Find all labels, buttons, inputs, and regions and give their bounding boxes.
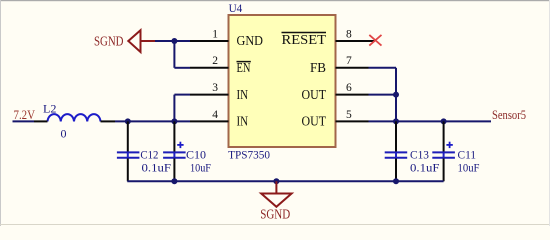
svg-text:GND: GND: [237, 34, 264, 49]
svg-text:6: 6: [346, 82, 352, 94]
svg-text:OUT: OUT: [302, 88, 327, 103]
svg-text:7.2V: 7.2V: [14, 108, 36, 122]
svg-text:RESET: RESET: [282, 33, 327, 48]
pin 5 OUT: [302, 109, 369, 130]
junction SGND/ground rail: [273, 178, 279, 184]
svg-text:1: 1: [212, 28, 218, 40]
pin 6 OUT: [302, 82, 369, 103]
svg-text:IN: IN: [237, 88, 249, 103]
capacitor C13: [385, 121, 440, 181]
svg-text:0.1uF: 0.1uF: [142, 161, 172, 175]
svg-text:L2: L2: [43, 102, 57, 116]
junction C13/ground rail: [393, 178, 399, 184]
no-ERC marker X: [369, 35, 381, 46]
svg-text:IN: IN: [237, 115, 249, 130]
inductor L2: [48, 114, 101, 121]
wire: pin3 vertical tap: [173, 95, 175, 122]
svg-text:0.1uF: 0.1uF: [410, 161, 440, 175]
junction at C10 / pin3 tap: [171, 118, 177, 124]
svg-text:3: 3: [212, 82, 218, 94]
pin 8 RESET (no connect): [282, 28, 376, 48]
wire: down to pin2: [173, 41, 175, 68]
svg-text:C10: C10: [186, 147, 206, 161]
svg-text:8: 8: [346, 28, 352, 40]
svg-text:U4: U4: [229, 1, 243, 15]
op IC U4 TPS7350 body: [229, 15, 336, 147]
wire: FB tie to OUT rail: [369, 67, 397, 69]
junction at C12 tap: [125, 118, 131, 124]
svg-text:OUT: OUT: [302, 115, 327, 130]
pin 4 IN: [190, 109, 248, 130]
svg-text:5: 5: [346, 109, 352, 121]
svg-text:10uF: 10uF: [190, 161, 211, 175]
svg-text:Sensor5: Sensor5: [492, 108, 526, 122]
wire: pin6 to rail: [369, 94, 397, 96]
junction at pin1/pin2 tap: [171, 38, 177, 44]
svg-text:EN: EN: [237, 61, 251, 76]
svg-text:SGND: SGND: [94, 34, 124, 49]
svg-text:SGND: SGND: [260, 206, 290, 221]
wire: L2 to IC pin 4 (input rail): [115, 120, 190, 122]
wire: ground rail (bottom): [127, 180, 443, 182]
power port SGND (top): [94, 30, 155, 52]
svg-text:2: 2: [212, 55, 218, 67]
svg-text:4: 4: [212, 109, 218, 121]
wire: SGND to pin1: [155, 40, 190, 42]
svg-text:C12: C12: [140, 147, 158, 161]
wire: 7.2V net to L2: [13, 120, 35, 122]
svg-text:0: 0: [61, 127, 67, 141]
svg-text:10uF: 10uF: [458, 161, 480, 175]
capacitor C12: [117, 121, 171, 181]
svg-text:C13: C13: [410, 147, 429, 161]
pin 2 EN: [190, 55, 251, 76]
L2 pin right: [101, 120, 116, 122]
junction C10/ground rail: [171, 178, 177, 184]
power port SGND (bottom): [260, 181, 291, 221]
pin 1 GND: [190, 28, 263, 49]
wire: output rail to Sensor5: [369, 120, 492, 122]
capacitor C10 (polar): [163, 121, 211, 181]
capacitor C11 (polar): [432, 121, 479, 181]
svg-text:C11: C11: [458, 147, 477, 161]
svg-text:FB: FB: [310, 61, 326, 76]
svg-text:7: 7: [346, 55, 352, 67]
svg-text:TPS7350: TPS7350: [228, 150, 270, 162]
L2 pin left: [34, 120, 48, 122]
pin 3 IN: [190, 82, 248, 103]
pin 7 FB: [310, 55, 369, 76]
